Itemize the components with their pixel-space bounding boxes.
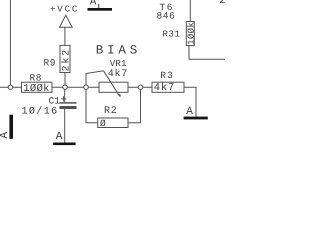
node junction left	[8, 85, 12, 89]
svg-text:Ø: Ø	[100, 118, 106, 129]
node C junction	[138, 85, 142, 89]
resistor R2 box	[98, 118, 128, 128]
resistor R31 box	[186, 22, 194, 46]
wire left vertical	[9, 0, 11, 87]
svg-text:R31: R31	[163, 30, 181, 40]
ground A top bar	[88, 8, 113, 11]
port bar left edge	[9, 115, 13, 139]
svg-text:R8: R8	[30, 73, 42, 84]
wire R8 to node A	[52, 86, 99, 88]
node B junction	[84, 85, 88, 89]
wire node B down to R2	[86, 87, 98, 123]
node A junction	[63, 85, 67, 89]
wire VCC to R9	[64, 28, 66, 46]
capacitor C1 top plate	[60, 102, 77, 104]
svg-text:+: +	[60, 95, 67, 107]
resistor R3 box	[152, 82, 184, 92]
svg-text:4k7: 4k7	[154, 82, 175, 94]
svg-text:R2: R2	[104, 106, 118, 117]
svg-text:846: 846	[157, 11, 176, 22]
svg-text:1ØØk: 1ØØk	[186, 22, 196, 45]
svg-text:1ØØk: 1ØØk	[23, 83, 49, 95]
svg-text:A: A	[0, 132, 11, 139]
wiper arrow VR1	[104, 71, 120, 96]
svg-text:A: A	[186, 106, 193, 118]
svg-text:VR1: VR1	[110, 59, 127, 69]
ground A right bar	[184, 117, 208, 120]
wire VR1 to R3	[128, 86, 152, 88]
capacitor C1 bottom plate	[60, 106, 77, 109]
resistor R8 box	[22, 82, 53, 92]
svg-text:2: 2	[219, 0, 225, 7]
wire R31 top	[189, 0, 191, 22]
svg-text:BIAS: BIAS	[96, 43, 141, 57]
svg-text:2k2: 2k2	[60, 48, 72, 72]
wire bias rail left	[0, 86, 22, 88]
svg-text:A: A	[56, 131, 63, 143]
wire R3 to ground right	[184, 87, 196, 116]
potentiometer VR1 box	[99, 82, 128, 92]
svg-text:R9: R9	[44, 58, 56, 69]
power +VCC triangle	[60, 15, 73, 27]
wire R31 bottom to right edge	[189, 46, 225, 60]
resistor R9 box	[60, 45, 70, 72]
ground A bottom bar	[53, 143, 75, 146]
wire R2 to node C	[128, 87, 141, 123]
wire R9 down to node A	[64, 73, 66, 88]
svg-text:R3: R3	[160, 70, 174, 81]
wire C1 top	[64, 87, 66, 102]
svg-text:4k7: 4k7	[108, 68, 128, 80]
wire C1 to ground	[64, 109, 66, 143]
svg-text:1Ø/16: 1Ø/16	[22, 106, 59, 118]
wire VR1 wiper to node B	[86, 71, 104, 87]
svg-text:C1: C1	[49, 95, 61, 106]
svg-text:+VCC: +VCC	[50, 5, 79, 15]
svg-text:A: A	[90, 0, 97, 8]
